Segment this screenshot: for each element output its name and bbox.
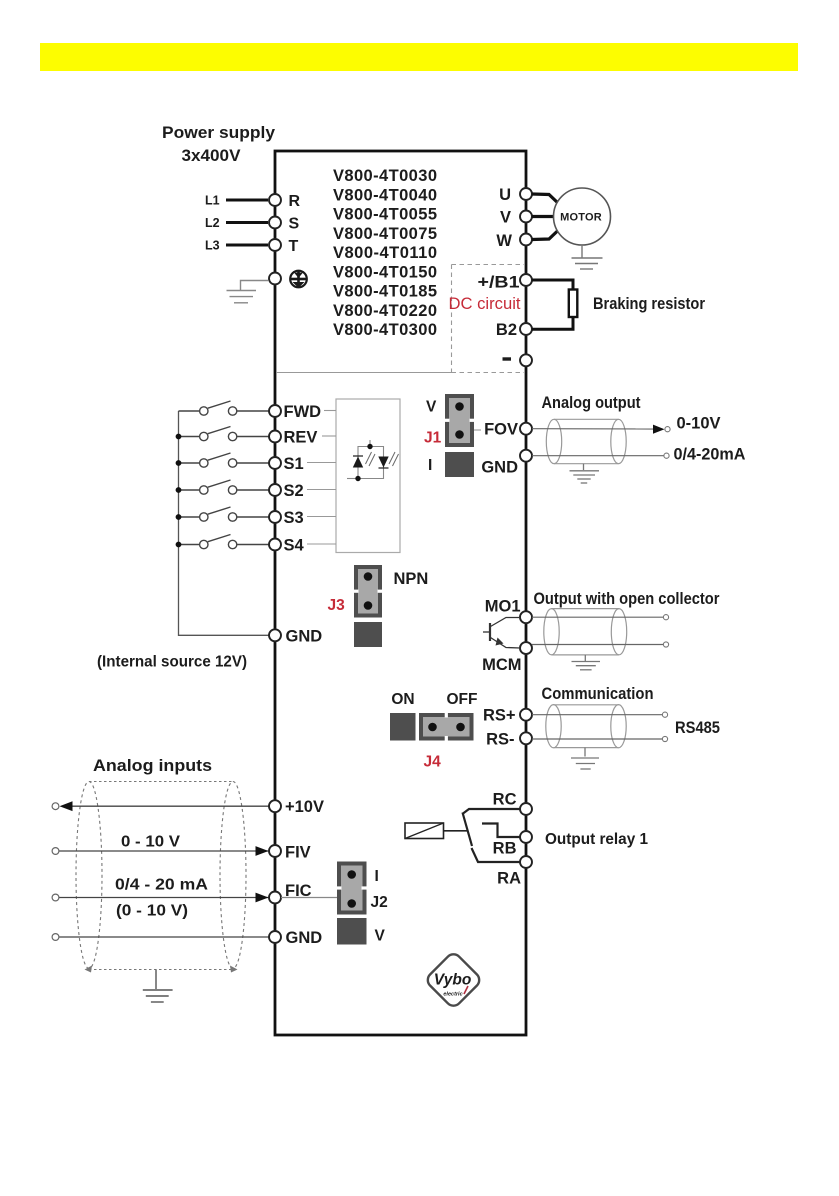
terminal R: [269, 194, 281, 206]
svg-text:0-10V: 0-10V: [677, 415, 721, 433]
digital input bus: [179, 411, 270, 635]
motor M: [554, 188, 611, 245]
svg-text:RS+: RS+: [483, 707, 516, 725]
svg-text:S4: S4: [284, 537, 305, 555]
switch REV: [179, 427, 270, 441]
jumper J3 solid pad: [354, 622, 382, 647]
svg-text:0 - 10 V: 0 - 10 V: [121, 834, 180, 851]
wire GND analog: [59, 936, 269, 938]
braking resistor body: [569, 290, 578, 318]
svg-text:V800-4T0300: V800-4T0300: [333, 321, 437, 339]
svg-text:(Internal source 12V): (Internal source 12V): [97, 654, 247, 671]
svg-text:Analog output: Analog output: [542, 394, 641, 412]
wire J1 to FOV: [474, 429, 481, 431]
switch S4: [179, 535, 270, 549]
ground (power input): [227, 281, 269, 303]
relay contact RB hook: [482, 824, 521, 838]
svg-text:ON: ON: [391, 691, 414, 708]
svg-text:I: I: [428, 457, 432, 474]
svg-text:V800-4T0030: V800-4T0030: [333, 167, 437, 185]
model list V800: [333, 167, 437, 339]
switch S2: [179, 480, 270, 494]
inverter enclosure box: [275, 151, 526, 1035]
svg-text:V800-4T0040: V800-4T0040: [333, 186, 437, 204]
junction dot S4: [176, 542, 182, 548]
separator line (power section): [276, 372, 452, 374]
svg-text:V800-4T0110: V800-4T0110: [333, 244, 437, 262]
terminal FWD: [269, 405, 281, 417]
svg-text:RA: RA: [497, 870, 521, 888]
wire L1: [226, 199, 268, 202]
wire +10V: [62, 805, 269, 807]
terminal RC: [520, 803, 532, 815]
braking resistor wires: [532, 280, 573, 290]
svg-text:V: V: [375, 928, 386, 945]
wire RS+: [532, 714, 663, 716]
svg-text:MOTOR: MOTOR: [560, 212, 602, 224]
svg-text:0/4 - 20 mA: 0/4 - 20 mA: [115, 877, 208, 894]
svg-text:MCM: MCM: [482, 656, 521, 674]
svg-text:Analog inputs: Analog inputs: [93, 756, 212, 775]
svg-text:L1: L1: [205, 194, 220, 208]
terminal REV: [269, 431, 281, 443]
terminal FIC: [269, 892, 281, 904]
wire U to motor: [532, 194, 559, 204]
svg-text:FOV: FOV: [484, 421, 518, 439]
wire MCM output: [532, 644, 664, 646]
switch FWD: [179, 401, 270, 415]
svg-text:GND: GND: [286, 627, 323, 645]
relay K1 coil: [405, 823, 444, 839]
yellow highlight bar: [40, 43, 798, 71]
terminal S4: [269, 539, 281, 551]
terminal T: [269, 239, 281, 251]
svg-text:0/4-20mA: 0/4-20mA: [674, 446, 746, 464]
terminal GND (analog out): [520, 450, 532, 462]
terminal +10V: [269, 800, 281, 812]
jumper J4 block: [419, 713, 474, 741]
svg-text:+/B1: +/B1: [478, 274, 520, 292]
opto isolator box: [336, 399, 400, 553]
svg-text:V800-4T0055: V800-4T0055: [333, 206, 437, 224]
wire MO1 output: [532, 616, 664, 618]
svg-text:Output with open collector: Output with open collector: [534, 590, 721, 608]
svg-text:electric: electric: [443, 992, 462, 998]
svg-text:S1: S1: [284, 455, 304, 473]
VYBO logo: [425, 951, 483, 1009]
svg-text:J4: J4: [424, 754, 442, 771]
svg-text:V: V: [426, 399, 437, 416]
svg-text:Communication: Communication: [542, 685, 654, 703]
jumper J2 solid pad: [337, 918, 367, 945]
jumper J3 block: [354, 565, 382, 618]
terminal S1: [269, 457, 281, 469]
svg-text:DC circuit: DC circuit: [449, 294, 521, 313]
terminal minus: [520, 354, 532, 366]
svg-text:RC: RC: [493, 791, 517, 809]
analog input shield (dashed): [76, 782, 246, 970]
terminal GND (analog): [269, 931, 281, 943]
junction dot S2: [176, 487, 182, 493]
switch S3: [179, 507, 270, 521]
terminal RB: [520, 831, 532, 843]
svg-text:NPN: NPN: [394, 570, 429, 588]
relay armature: [463, 813, 473, 847]
wire W to motor: [532, 230, 559, 240]
wire FIC: [59, 897, 269, 899]
svg-text:J3: J3: [328, 597, 346, 614]
shielded cable (communication): [546, 705, 626, 748]
terminal W: [520, 234, 532, 246]
jumper J2 block: [337, 862, 367, 915]
wire FOV output: [532, 428, 653, 430]
svg-text:Vybo: Vybo: [434, 972, 472, 989]
shielded cable (open collector): [544, 609, 627, 655]
ground (analog output shield): [570, 464, 600, 483]
svg-text:T: T: [289, 238, 299, 255]
svg-text:Power supply: Power supply: [162, 123, 276, 142]
wire L2: [226, 221, 268, 224]
terminal S2: [269, 484, 281, 496]
svg-text:S2: S2: [284, 482, 304, 500]
svg-text:3x400V: 3x400V: [182, 146, 242, 165]
shielded cable (analog output): [546, 419, 626, 463]
terminal RS-: [520, 732, 532, 744]
switch S1: [179, 453, 270, 467]
svg-text:J1: J1: [424, 430, 442, 447]
svg-text:L2: L2: [205, 216, 220, 230]
svg-text:R: R: [289, 193, 301, 210]
svg-text:RB: RB: [493, 840, 517, 858]
wire GND output: [532, 455, 664, 457]
ground (analog input shield): [143, 970, 173, 1003]
ground (open collector shield): [572, 655, 601, 670]
svg-text:OFF: OFF: [447, 691, 478, 708]
wire L3: [226, 244, 268, 247]
svg-text:S: S: [289, 216, 300, 233]
terminal V: [520, 211, 532, 223]
DC circuit dashed box: [452, 265, 525, 373]
opto LED pair symbol: [347, 440, 384, 479]
svg-text:V800-4T0220: V800-4T0220: [333, 302, 437, 320]
terminal MO1: [520, 611, 532, 623]
terminal RS+: [520, 709, 532, 721]
svg-text:B2: B2: [496, 321, 517, 339]
motor ground: [572, 245, 603, 269]
wire coil to contact: [444, 830, 469, 832]
svg-text:FIV: FIV: [285, 844, 311, 862]
terminal RA: [520, 856, 532, 868]
svg-text:Braking resistor: Braking resistor: [593, 295, 706, 313]
terminal GND (digital): [269, 629, 281, 641]
svg-text:REV: REV: [284, 429, 318, 447]
junction dot S1: [176, 460, 182, 466]
transistor Q1: [483, 618, 520, 649]
terminal S3: [269, 511, 281, 523]
wire RS-: [532, 738, 663, 740]
jumper J1 block: [445, 394, 474, 447]
relay contact RC lead: [463, 809, 521, 814]
relay contact RA lead: [472, 848, 521, 862]
svg-text:S3: S3: [284, 509, 304, 527]
svg-text:W: W: [496, 232, 512, 250]
svg-text:V800-4T0150: V800-4T0150: [333, 263, 437, 281]
svg-text:(0 - 10 V): (0 - 10 V): [116, 903, 188, 920]
svg-text:RS485: RS485: [675, 718, 720, 737]
terminal B2: [520, 323, 532, 335]
wire FIV: [59, 850, 269, 852]
svg-text:FWD: FWD: [284, 403, 322, 421]
svg-text:J2: J2: [371, 894, 388, 911]
junction dot S3: [176, 514, 182, 520]
svg-text:L3: L3: [205, 239, 220, 253]
terminal FIV: [269, 845, 281, 857]
wire V to motor: [532, 215, 554, 218]
svg-text:+10V: +10V: [285, 798, 324, 816]
PE symbol: [290, 271, 307, 288]
terminal U: [520, 188, 532, 200]
svg-text:MO1: MO1: [485, 598, 521, 616]
terminal PE: [269, 273, 281, 285]
jumper J1 solid pad: [445, 452, 474, 477]
svg-text:GND: GND: [481, 459, 518, 477]
svg-text:V800-4T0075: V800-4T0075: [333, 225, 437, 243]
svg-text:Output relay 1: Output relay 1: [545, 831, 648, 848]
terminal +/B1: [520, 274, 532, 286]
svg-text:RS-: RS-: [486, 731, 514, 749]
svg-text:U: U: [499, 186, 511, 204]
svg-text:I: I: [375, 868, 379, 885]
terminal MCM: [520, 642, 532, 654]
opto input stubs: [307, 411, 336, 545]
terminal S: [269, 217, 281, 229]
svg-text:V: V: [500, 209, 511, 227]
svg-text:V800-4T0185: V800-4T0185: [333, 283, 437, 301]
ground (communication shield): [571, 748, 599, 769]
svg-text:GND: GND: [286, 929, 323, 947]
junction dot REV: [176, 434, 182, 440]
terminal FOV: [520, 423, 532, 435]
jumper J4 solid pad: [390, 713, 416, 741]
wire FIC to J2: [281, 897, 337, 899]
